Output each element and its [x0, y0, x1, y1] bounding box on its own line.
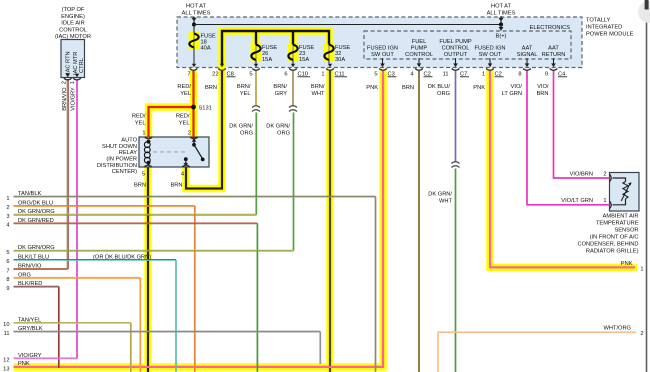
wire DK GRN/ORG from connector to row5 — [293, 113, 295, 251]
power distribution / TIPM outer box — [177, 17, 582, 68]
wire PNK C2 right branch — [490, 71, 635, 267]
connector pin 9 C4 — [550, 69, 558, 71]
svg-text:4: 4 — [181, 172, 184, 178]
svg-text:10: 10 — [3, 322, 9, 328]
electronics arrow C7-11 — [455, 58, 457, 64]
svg-text:FUEL: FUEL — [412, 39, 427, 45]
svg-text:ELECTRONICS: ELECTRONICS — [530, 25, 571, 31]
svg-text:2: 2 — [603, 171, 606, 177]
electronics arrow C2-4 — [418, 58, 420, 64]
relay dashed link — [153, 151, 188, 153]
fuse 23 15A — [292, 45, 294, 61]
wire row 1 TAN/BLK — [14, 195, 376, 197]
svg-text:CONTROL: CONTROL — [442, 46, 470, 52]
svg-text:5: 5 — [6, 250, 9, 256]
wire B+ distribution horizontal — [194, 24, 501, 26]
wire hot-at-all-times right entry — [500, 16, 502, 25]
svg-text:BRN: BRN — [536, 91, 548, 97]
svg-text:HOT AT: HOT AT — [491, 4, 512, 10]
svg-text:CENTER): CENTER) — [112, 169, 137, 175]
wire DK GRN/ORG from connector to row3 — [255, 113, 257, 215]
svg-text:BRN/VIO: BRN/VIO — [62, 87, 68, 111]
svg-text:YEL: YEL — [180, 91, 191, 97]
svg-text:8: 8 — [518, 72, 521, 78]
wire BRN/YEL fuse26 — [255, 71, 257, 106]
svg-text:ORG: ORG — [240, 131, 253, 137]
svg-text:ORG: ORG — [437, 91, 450, 97]
svg-text:ALL TIMES: ALL TIMES — [182, 11, 211, 17]
wire row 7 BRN/VIO — [14, 268, 68, 270]
svg-text:IDLE AIR: IDLE AIR — [61, 21, 84, 27]
svg-text:BRN: BRN — [205, 85, 217, 91]
wire BRN/WHT fuse32 down — [329, 71, 331, 372]
scroll circle — [638, 1, 650, 23]
svg-text:B(+): B(+) — [496, 34, 507, 40]
svg-text:S131: S131 — [199, 106, 212, 112]
AAT sensor cups — [610, 174, 612, 182]
connector pin 5 C3 — [379, 69, 387, 71]
svg-text:SW OUT: SW OUT — [371, 52, 394, 58]
wire DK BLU/ORG C7 — [455, 71, 457, 162]
IAC motor box — [61, 40, 85, 78]
wire WHT/ORG — [438, 332, 636, 372]
svg-text:7: 7 — [187, 72, 190, 78]
svg-text:PNK: PNK — [18, 361, 30, 367]
AAT thermistor — [613, 178, 626, 182]
svg-text:4: 4 — [6, 223, 9, 229]
svg-text:BRN: BRN — [134, 183, 146, 189]
svg-text:TAN/YEL: TAN/YEL — [18, 317, 41, 323]
svg-text:AUTO: AUTO — [121, 138, 137, 144]
svg-text:ORG: ORG — [18, 272, 31, 278]
svg-text:1: 1 — [70, 81, 76, 84]
svg-text:5: 5 — [142, 172, 145, 178]
svg-text:TEMPERATURE: TEMPERATURE — [596, 221, 639, 227]
wire row 10 TAN/YEL — [14, 321, 131, 323]
svg-text:2: 2 — [640, 331, 643, 337]
svg-text:TAN/BLK: TAN/BLK — [18, 191, 41, 197]
scroll thumb — [645, 0, 649, 10]
connector pin 4 C2 — [415, 69, 423, 71]
connector pin 7 — [190, 69, 198, 71]
svg-text:15A: 15A — [262, 57, 272, 63]
wire DK GRN/WHT down — [455, 169, 457, 372]
connector cup overlays — [190, 69, 198, 71]
fuse 32 30A — [328, 45, 330, 61]
svg-text:(IAC) MOTOR: (IAC) MOTOR — [55, 34, 91, 40]
svg-text:(OR DK BLU/DK GRN): (OR DK BLU/DK GRN) — [93, 255, 151, 261]
svg-text:DISTRIBUTION: DISTRIBUTION — [97, 163, 137, 169]
svg-text:13: 13 — [3, 367, 9, 372]
wire row 9 BLK/RED — [14, 285, 59, 287]
svg-text:RETURN: RETURN — [542, 52, 566, 58]
node splice right — [499, 22, 503, 26]
wire row 2 ORG/DK BLU — [14, 204, 195, 206]
svg-text:8: 8 — [6, 277, 9, 283]
svg-text:YEL: YEL — [240, 91, 251, 97]
svg-text:40A: 40A — [201, 46, 211, 52]
svg-text:PUMP: PUMP — [411, 46, 428, 52]
wire highlight: BRN/WHT fuse32 down — [326, 71, 333, 372]
ambient air temperature sensor box — [610, 173, 640, 212]
svg-text:5: 5 — [249, 72, 252, 78]
connector pin 6 C10 — [289, 69, 297, 71]
svg-text:11: 11 — [443, 72, 449, 78]
svg-text:OUTPUT: OUTPUT — [444, 52, 468, 58]
wire B+ into electronics — [500, 25, 502, 31]
svg-text:WHT/ORG: WHT/ORG — [604, 326, 632, 332]
wire highlight: BRN relay pin4 to C8 — [186, 71, 222, 189]
wire row 4 DK GRN/RED — [14, 222, 258, 224]
svg-text:BLK/RED: BLK/RED — [18, 281, 42, 287]
svg-text:HOT AT: HOT AT — [186, 4, 207, 10]
node splice left — [192, 22, 196, 26]
svg-text:BRN/: BRN/ — [273, 84, 287, 90]
wire VIO/GRY from IAC — [76, 80, 78, 358]
wire PNK C3 down + row 13 — [14, 71, 384, 367]
electronics arrow C2-1 — [489, 58, 491, 64]
relay pin cups — [145, 137, 153, 139]
svg-text:DK GRN/: DK GRN/ — [266, 124, 290, 130]
svg-text:VIO/GRY: VIO/GRY — [71, 87, 77, 111]
svg-text:SIGNAL: SIGNAL — [517, 52, 538, 58]
svg-text:12: 12 — [3, 358, 9, 364]
svg-text:DK BLU/: DK BLU/ — [428, 84, 451, 90]
fusebox pin arrow 7 — [192, 64, 196, 67]
svg-text:BRN/: BRN/ — [237, 84, 251, 90]
svg-text:SENSOR: SENSOR — [614, 228, 638, 234]
wire row 8 ORG — [14, 276, 141, 278]
svg-text:YEL: YEL — [135, 120, 146, 126]
svg-text:9: 9 — [6, 286, 9, 292]
svg-text:PNK: PNK — [621, 261, 633, 267]
svg-text:WHT: WHT — [439, 198, 452, 204]
svg-text:BRN/: BRN/ — [311, 84, 325, 90]
svg-text:ORG/DK BLU: ORG/DK BLU — [18, 200, 53, 206]
svg-text:ENGINE): ENGINE) — [61, 14, 85, 20]
wire BRN/GRY fuse23 — [292, 71, 294, 106]
svg-text:(IN POWER: (IN POWER — [106, 157, 137, 163]
svg-text:DK GRN/: DK GRN/ — [229, 124, 253, 130]
svg-text:FUEL PUMP: FUEL PUMP — [439, 39, 472, 45]
svg-text:PNK: PNK — [366, 85, 378, 91]
wire VIO/LT GRN pin8 to AAT pin1 — [527, 71, 610, 205]
svg-text:TOTALLY: TOTALLY — [586, 18, 611, 24]
svg-text:VIO/BRN: VIO/BRN — [570, 171, 593, 177]
svg-text:(IN FRONT OF A/C: (IN FRONT OF A/C — [590, 235, 639, 241]
wire highlight: PNK C2 to right edge — [490, 71, 637, 268]
svg-text:5: 5 — [374, 72, 377, 78]
wire hot-at-all-times left entry — [193, 17, 195, 25]
svg-text:RELAY: RELAY — [119, 150, 137, 156]
svg-text:CTRL: CTRL — [79, 58, 85, 73]
svg-text:LT GRN: LT GRN — [502, 91, 522, 97]
svg-text:AAT: AAT — [548, 46, 559, 52]
connector inline BRN/GRY to DK GRN/ORG — [289, 106, 297, 108]
svg-text:CONTROL: CONTROL — [59, 27, 87, 33]
svg-text:VIO/: VIO/ — [511, 84, 523, 90]
svg-text:DK GRN/RED: DK GRN/RED — [18, 218, 54, 224]
svg-text:VIO/: VIO/ — [537, 84, 549, 90]
fuse 18 40A — [193, 25, 195, 34]
svg-text:RED/: RED/ — [177, 84, 191, 90]
svg-text:AAT: AAT — [522, 46, 533, 52]
svg-text:4: 4 — [410, 72, 413, 78]
svg-text:6: 6 — [6, 259, 9, 265]
svg-text:FUSED IGN: FUSED IGN — [475, 46, 506, 52]
fusebox pin arrow 5 — [254, 64, 258, 67]
wire row 6 BLK/LT BLU — [14, 258, 177, 260]
wire VIO/BRN pin9 to AAT pin2 — [554, 71, 610, 178]
svg-text:SHUT DOWN: SHUT DOWN — [102, 144, 137, 150]
svg-text:DK GRN/ORG: DK GRN/ORG — [18, 245, 55, 251]
connector pin 1 C2 — [486, 69, 494, 71]
svg-text:(TOP OF: (TOP OF — [62, 7, 85, 13]
wire row 5 DK GRN/ORG — [14, 249, 294, 251]
svg-text:1: 1 — [603, 198, 606, 204]
fusebox pin arrow 6 — [291, 64, 295, 67]
wire row 3 DK GRN/ORG — [14, 213, 257, 215]
svg-text:BLK/LT BLU: BLK/LT BLU — [18, 254, 49, 260]
svg-text:POWER MODULE: POWER MODULE — [586, 32, 634, 38]
svg-text:2: 2 — [188, 131, 191, 137]
svg-text:BRN: BRN — [170, 183, 182, 189]
svg-text:INTEGRATED: INTEGRATED — [586, 25, 622, 31]
electronics arrow C3 — [382, 58, 384, 64]
wire RED/YEL fuse18 to relay S131 — [192, 71, 194, 137]
svg-text:GRY/BLK: GRY/BLK — [18, 326, 43, 332]
svg-text:IAC RTN: IAC RTN — [65, 51, 71, 74]
svg-text:BRN: BRN — [402, 85, 414, 91]
svg-text:2: 2 — [6, 205, 9, 211]
svg-text:PNK: PNK — [473, 85, 485, 91]
relay coil — [144, 142, 150, 148]
wire row 11 GRY/BLK — [14, 330, 321, 332]
svg-text:VIO/GRY: VIO/GRY — [18, 353, 42, 359]
connector pin 22 C8 — [218, 69, 226, 71]
svg-text:AMBIENT AIR: AMBIENT AIR — [603, 214, 639, 220]
svg-text:RADIATOR GRILLE): RADIATOR GRILLE) — [586, 249, 639, 255]
wire highlight: PNK C3 + row13 — [14, 71, 384, 368]
IAC pin arrows — [65, 74, 70, 78]
svg-text:22: 22 — [212, 72, 218, 78]
wire BRN C2 down — [418, 71, 420, 372]
wire highlight: fusebox bus + fuse branches — [222, 31, 329, 69]
auto shut down relay box — [139, 137, 209, 167]
svg-text:2: 2 — [61, 81, 67, 84]
wire highlight: RED/YEL fuse18 to relay — [190, 71, 197, 138]
svg-text:1: 1 — [6, 196, 9, 202]
fusebox pin arrow 22 — [220, 64, 224, 67]
relay switch — [193, 137, 195, 144]
fuse 26 15A — [255, 45, 257, 61]
connector pin 8 — [523, 69, 531, 71]
wire BRN/VIO from IAC — [66, 80, 68, 269]
svg-text:ALL TIMES: ALL TIMES — [487, 11, 516, 17]
wire row 12 VIO/GRY — [14, 357, 78, 359]
svg-text:VIO/LT GRN: VIO/LT GRN — [561, 198, 593, 204]
svg-text:9: 9 — [545, 72, 548, 78]
wire BRN relay pin5 core — [147, 168, 149, 372]
svg-text:CONTROL: CONTROL — [405, 52, 433, 58]
wire highlight: BRN relay pin5 down — [144, 168, 151, 372]
svg-text:30A: 30A — [335, 57, 345, 63]
electronics arrow pin9 C4 — [553, 58, 555, 64]
svg-text:YEL: YEL — [179, 120, 190, 126]
svg-text:6: 6 — [284, 72, 287, 78]
svg-text:1: 1 — [142, 131, 145, 137]
svg-text:1: 1 — [640, 266, 643, 272]
svg-text:RED/: RED/ — [176, 113, 190, 119]
svg-text:1: 1 — [482, 72, 485, 78]
page right border — [646, 0, 648, 372]
connector inline BRN/YEL to DK GRN/ORG — [252, 106, 260, 108]
svg-text:1: 1 — [321, 72, 324, 78]
fusebox pin arrow 1 — [328, 64, 332, 67]
svg-text:15A: 15A — [299, 57, 309, 63]
node S131 — [191, 105, 196, 110]
electronics arrow pin8 — [526, 58, 528, 64]
svg-text:ORG: ORG — [277, 131, 290, 137]
svg-text:BRN/VIO: BRN/VIO — [18, 264, 42, 270]
svg-text:DK GRN/: DK GRN/ — [428, 191, 452, 197]
svg-text:GRY: GRY — [275, 91, 287, 97]
wire highlight: fuse 18 segment — [189, 32, 200, 51]
ELECTRONICS inner box — [364, 31, 571, 59]
svg-text:RED/: RED/ — [132, 113, 146, 119]
svg-text:DK GRN/ORG: DK GRN/ORG — [18, 209, 55, 215]
svg-text:FUSED IGN: FUSED IGN — [367, 46, 398, 52]
connector pin 11 C7 — [452, 69, 460, 71]
wire bus fusebox — [222, 31, 329, 65]
svg-text:3: 3 — [6, 214, 9, 220]
svg-text:11: 11 — [4, 331, 10, 337]
svg-text:CONDENSER, BEHIND: CONDENSER, BEHIND — [578, 242, 639, 248]
connector inline DK BLU/ORG to DK GRN/WHT — [452, 162, 460, 164]
connector pin 5 — [252, 69, 260, 71]
wire BRN C8 to relay pin4 — [186, 71, 222, 189]
svg-text:7: 7 — [6, 268, 9, 274]
svg-text:SW OUT: SW OUT — [479, 52, 502, 58]
connector pin 1 C11 — [326, 69, 334, 71]
svg-text:WHT: WHT — [312, 91, 325, 97]
